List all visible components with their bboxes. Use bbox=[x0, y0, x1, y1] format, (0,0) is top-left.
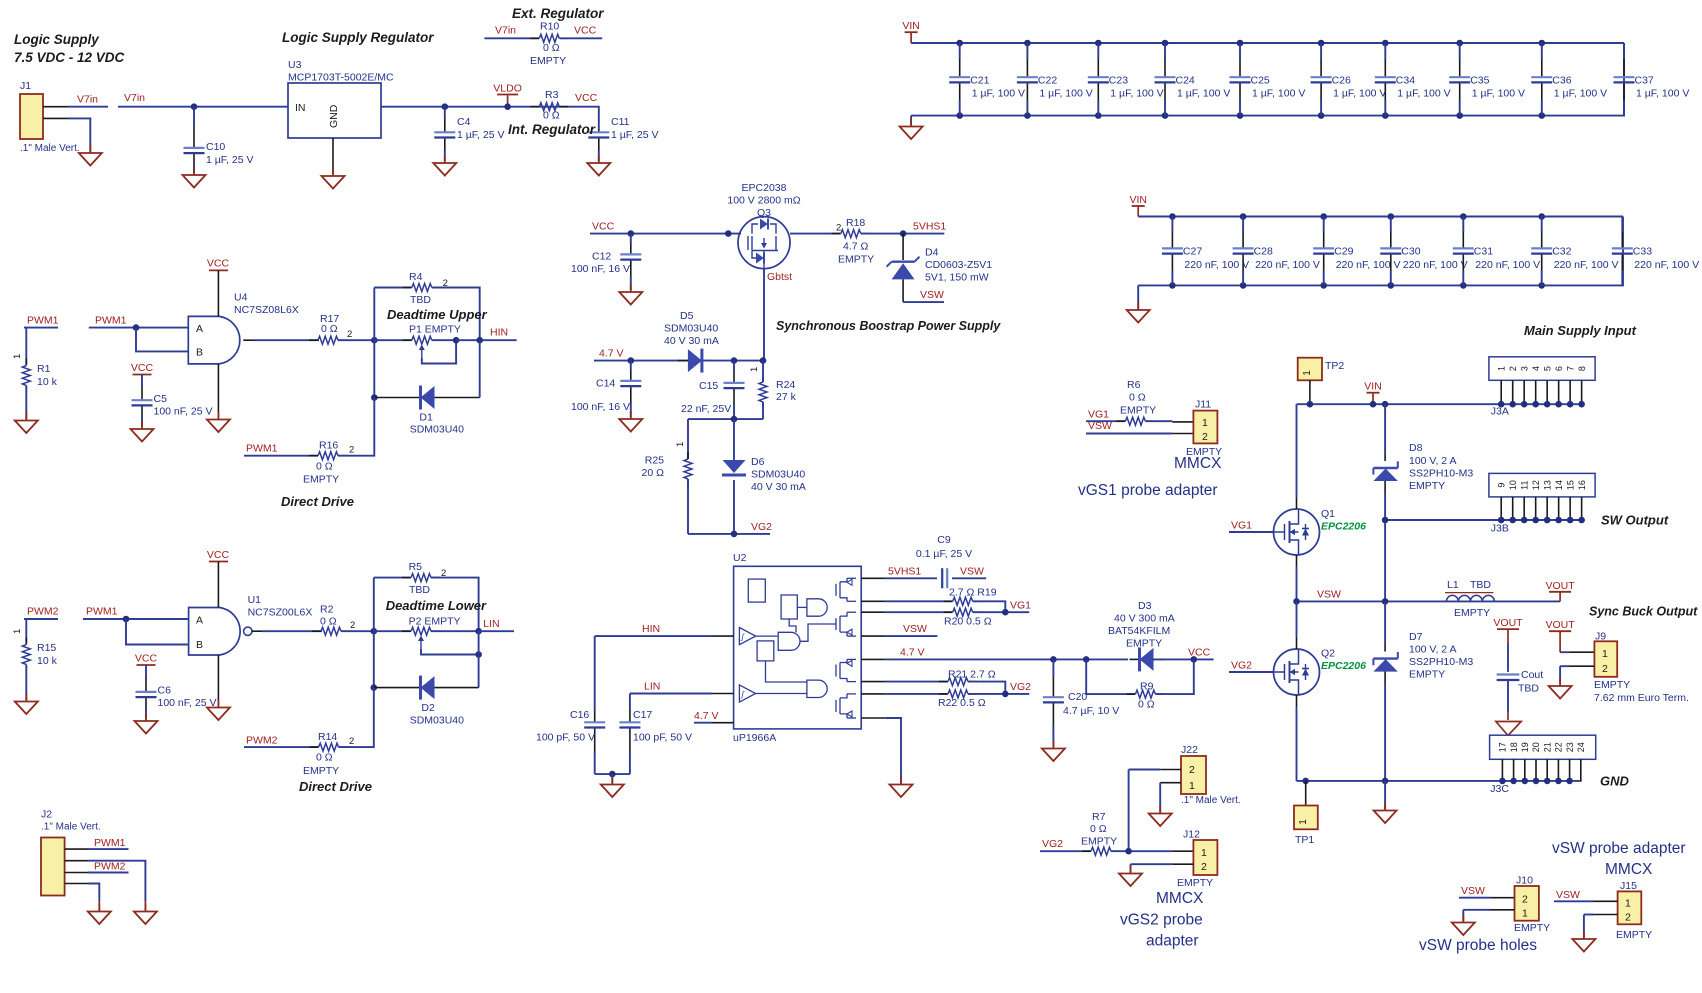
svg-text:VG1: VG1 bbox=[1010, 600, 1031, 612]
svg-text:1 µF, 100 V: 1 µF, 100 V bbox=[1252, 88, 1305, 100]
junction C14 tap bbox=[628, 357, 635, 364]
svg-text:VIN: VIN bbox=[1129, 194, 1147, 206]
svg-text:VCC: VCC bbox=[574, 25, 597, 37]
capacitor C17 bbox=[629, 694, 631, 701]
svg-text:EMPTY: EMPTY bbox=[303, 765, 339, 777]
wire D7 gnd stub bbox=[1384, 781, 1386, 809]
wire P2 wiper loop bbox=[421, 649, 479, 655]
svg-text:HIN: HIN bbox=[642, 623, 660, 635]
ground at C10 bbox=[193, 167, 195, 175]
svg-text:J3C: J3C bbox=[1490, 783, 1509, 795]
svg-text:2: 2 bbox=[1201, 861, 1207, 873]
U4 GND pin bbox=[217, 364, 219, 418]
junction C4 tap bbox=[442, 103, 449, 110]
svg-text:220 nF, 100 V: 220 nF, 100 V bbox=[1554, 259, 1619, 271]
svg-text:5: 5 bbox=[1542, 366, 1552, 371]
svg-text:5VHS1: 5VHS1 bbox=[888, 566, 921, 578]
svg-text:D8: D8 bbox=[1409, 442, 1423, 454]
junction D3 left bbox=[1083, 656, 1090, 663]
capacitor C36 bbox=[1539, 40, 1546, 47]
svg-text:VCC: VCC bbox=[1188, 647, 1211, 659]
svg-text:J3B: J3B bbox=[1491, 523, 1509, 535]
svg-text:C16: C16 bbox=[570, 709, 589, 721]
svg-text:C15: C15 bbox=[699, 380, 718, 392]
svg-text:10 k: 10 k bbox=[37, 655, 58, 667]
junction J22 branch bbox=[1125, 848, 1132, 855]
svg-text:0 Ω: 0 Ω bbox=[1138, 699, 1155, 711]
resistor R22 bbox=[939, 693, 948, 695]
wire VG2 to R7 bbox=[1040, 850, 1090, 852]
ground at J12 bbox=[1130, 866, 1132, 874]
junction VG1 bbox=[973, 611, 1029, 613]
svg-text:VG2: VG2 bbox=[751, 521, 772, 533]
svg-text:Direct Drive: Direct Drive bbox=[281, 494, 354, 509]
svg-text:2: 2 bbox=[836, 223, 841, 234]
svg-text:VSW: VSW bbox=[1088, 420, 1112, 432]
svg-text:TBD: TBD bbox=[410, 294, 431, 306]
svg-text:R20 0.5 Ω: R20 0.5 Ω bbox=[944, 616, 992, 628]
svg-text:27 k: 27 k bbox=[776, 391, 797, 403]
svg-text:0 Ω: 0 Ω bbox=[316, 461, 333, 473]
svg-text:1: 1 bbox=[1625, 898, 1631, 910]
ground at U3 bbox=[332, 168, 334, 176]
U2 internal wiring bbox=[756, 619, 836, 694]
J3A pin 1 bbox=[1500, 380, 1502, 404]
svg-text:100 pF, 50 V: 100 pF, 50 V bbox=[536, 732, 595, 744]
svg-text:1: 1 bbox=[1602, 648, 1608, 660]
svg-text:U4: U4 bbox=[234, 292, 248, 304]
svg-text:2: 2 bbox=[349, 736, 354, 747]
svg-text:TBD: TBD bbox=[1470, 579, 1491, 591]
svg-text:J11: J11 bbox=[1195, 399, 1211, 411]
wire V7in to R10 bbox=[484, 37, 539, 39]
svg-text:SW Output: SW Output bbox=[1601, 513, 1669, 528]
svg-text:1 µF, 100 V: 1 µF, 100 V bbox=[1039, 88, 1092, 100]
U2 pin gate hi bbox=[861, 600, 886, 602]
svg-text:EMPTY: EMPTY bbox=[838, 254, 874, 266]
ground at Cout bbox=[1496, 722, 1521, 736]
junction C15 top bbox=[731, 357, 738, 364]
wire SW rail bbox=[1385, 519, 1582, 521]
capacitor C34 bbox=[1382, 40, 1389, 47]
svg-text:R7: R7 bbox=[1092, 811, 1106, 823]
svg-text:23: 23 bbox=[1565, 742, 1575, 752]
wire 4.7V row bbox=[594, 360, 688, 362]
junction PWM1 branch at U1 bbox=[123, 616, 130, 623]
svg-text:4.7 V: 4.7 V bbox=[694, 710, 719, 722]
J22 pin 2 wire bbox=[1160, 769, 1181, 771]
U2 internal schmitt buffer 2 bbox=[739, 685, 755, 702]
svg-text:D5: D5 bbox=[680, 310, 694, 322]
wire 5VHS1 to C9 bbox=[886, 577, 937, 579]
svg-text:vGS2 probe: vGS2 probe bbox=[1120, 912, 1203, 929]
svg-text:MMCX: MMCX bbox=[1605, 861, 1653, 878]
diode D8 bbox=[1373, 467, 1397, 469]
ground at C4 bbox=[444, 155, 446, 163]
junction D1 left bbox=[371, 394, 378, 401]
capacitor C4 bbox=[444, 118, 446, 132]
ground at C11 bbox=[598, 155, 600, 163]
wire VCC from R10 bbox=[560, 37, 602, 39]
svg-text:EMPTY: EMPTY bbox=[530, 55, 566, 67]
wire left branch vertical bbox=[373, 288, 375, 398]
svg-text:.1" Male Vert.: .1" Male Vert. bbox=[1181, 795, 1241, 806]
svg-text:VOUT: VOUT bbox=[1546, 619, 1576, 631]
svg-text:20 Ω: 20 Ω bbox=[642, 467, 665, 479]
ground at C16 C17 bbox=[611, 777, 613, 785]
svg-text:220 nF, 100 V: 220 nF, 100 V bbox=[1403, 259, 1468, 271]
svg-text:22 nF, 25V: 22 nF, 25V bbox=[681, 403, 731, 415]
capacitor C11 bbox=[598, 129, 600, 132]
svg-text:HIN: HIN bbox=[490, 327, 508, 339]
svg-text:C10: C10 bbox=[206, 141, 225, 153]
svg-text:C27: C27 bbox=[1183, 246, 1202, 258]
U2 internal block 2 bbox=[781, 595, 797, 619]
wire to D2 bbox=[374, 687, 420, 689]
svg-text:SS2PH10-M3: SS2PH10-M3 bbox=[1409, 656, 1473, 668]
capacitor C15 bbox=[733, 371, 735, 383]
wire C9 to VSW bbox=[952, 577, 986, 579]
svg-text:R5: R5 bbox=[409, 561, 423, 573]
svg-text:BAT54KFILM: BAT54KFILM bbox=[1108, 625, 1170, 637]
svg-text:P2 EMPTY: P2 EMPTY bbox=[409, 615, 461, 627]
svg-text:adapter: adapter bbox=[1146, 933, 1199, 950]
capacitor C25 bbox=[1237, 40, 1244, 47]
svg-text:EMPTY: EMPTY bbox=[1126, 638, 1162, 650]
U2 pin sense lo bbox=[861, 693, 886, 695]
wire gnd rail bottom bank1 bbox=[911, 43, 1624, 116]
capacitor C31 bbox=[1460, 213, 1467, 220]
svg-text:A: A bbox=[196, 614, 203, 626]
svg-text:D3: D3 bbox=[1138, 600, 1152, 612]
J3B pin 10 bbox=[1512, 497, 1514, 520]
U2 pin LIN bbox=[712, 693, 734, 695]
svg-text:Main Supply Input: Main Supply Input bbox=[1524, 323, 1637, 338]
svg-text:EMPTY: EMPTY bbox=[303, 474, 339, 486]
svg-text:R18: R18 bbox=[846, 217, 865, 229]
U2 pin HIN bbox=[712, 635, 734, 637]
svg-text:0 Ω: 0 Ω bbox=[543, 110, 560, 122]
J3A pin 4 bbox=[1535, 380, 1537, 404]
svg-text:D1: D1 bbox=[419, 412, 433, 424]
svg-text:Q2: Q2 bbox=[1321, 648, 1335, 660]
wire PWM1 to R16 bbox=[244, 455, 318, 457]
ground at C5 bbox=[141, 421, 143, 429]
svg-text:2: 2 bbox=[350, 620, 355, 631]
U4 VCC pin bbox=[217, 270, 219, 316]
svg-text:U3: U3 bbox=[288, 59, 302, 71]
svg-text:1 µF, 100 V: 1 µF, 100 V bbox=[1177, 88, 1230, 100]
svg-text:EPC2038: EPC2038 bbox=[742, 182, 787, 194]
wire PWM1 to U1 input A bbox=[83, 618, 189, 620]
power port VIN main bbox=[1367, 392, 1380, 394]
diode D1 bbox=[421, 386, 435, 409]
svg-text:C23: C23 bbox=[1109, 75, 1128, 87]
power port VOUT at Cout bbox=[1497, 628, 1519, 630]
svg-text:1 µF, 100 V: 1 µF, 100 V bbox=[1110, 88, 1163, 100]
wire PWM1 to U4 input A bbox=[89, 327, 189, 329]
svg-text:J12: J12 bbox=[1183, 829, 1200, 841]
svg-text:PWM2: PWM2 bbox=[94, 860, 126, 872]
svg-text:PWM1: PWM1 bbox=[94, 837, 126, 849]
svg-text:A: A bbox=[196, 323, 203, 335]
junction Q3 gate tap bbox=[725, 230, 732, 237]
svg-text:1: 1 bbox=[749, 367, 760, 372]
svg-text:12: 12 bbox=[1531, 480, 1541, 490]
J3B pin 9 bbox=[1500, 497, 1502, 520]
ground at C20 bbox=[1052, 741, 1054, 749]
svg-text:PWM1: PWM1 bbox=[27, 315, 59, 327]
wire to D4 bbox=[902, 234, 904, 260]
J3B pin 11 bbox=[1523, 497, 1525, 520]
svg-text:uP1966A: uP1966A bbox=[733, 732, 776, 744]
svg-text:15: 15 bbox=[1565, 480, 1575, 490]
wire to R15 bbox=[25, 619, 27, 643]
svg-text:C20: C20 bbox=[1068, 691, 1087, 703]
junction deadtime upper left bbox=[371, 337, 378, 344]
junction VLDO bbox=[504, 103, 511, 110]
svg-text:CD0603-Z5V1: CD0603-Z5V1 bbox=[925, 259, 992, 271]
svg-text:VSW: VSW bbox=[903, 623, 927, 635]
J3B pin 14 bbox=[1558, 497, 1560, 520]
zener diode D4 bbox=[892, 261, 915, 263]
svg-text:TBD: TBD bbox=[1518, 683, 1539, 695]
wire Q1 source bbox=[1296, 555, 1298, 567]
J3C pin 21 bbox=[1546, 759, 1548, 781]
svg-text:P1 EMPTY: P1 EMPTY bbox=[409, 324, 461, 336]
wire HIN net bbox=[595, 635, 712, 637]
svg-text:V7in: V7in bbox=[495, 25, 516, 37]
svg-text:1: 1 bbox=[1496, 366, 1506, 371]
capacitor C32 bbox=[1538, 213, 1545, 220]
svg-text:PWM2: PWM2 bbox=[246, 735, 278, 747]
svg-text:SS2PH10-M3: SS2PH10-M3 bbox=[1409, 468, 1473, 480]
svg-text:R15: R15 bbox=[37, 642, 56, 654]
J22 pin 1 wire to ground bbox=[1160, 782, 1181, 784]
capacitor C22 bbox=[1024, 40, 1031, 47]
svg-text:SDM03U40: SDM03U40 bbox=[664, 323, 718, 335]
svg-text:1: 1 bbox=[1522, 908, 1528, 920]
junction P2 right bbox=[475, 628, 482, 635]
ground at J9 bbox=[1559, 678, 1561, 686]
U2 pin sense hi bbox=[861, 611, 886, 613]
U2 output fet 1 bbox=[836, 578, 856, 601]
svg-text:11: 11 bbox=[1519, 480, 1529, 489]
svg-text:vGS1 probe adapter: vGS1 probe adapter bbox=[1078, 482, 1218, 499]
svg-text:C24: C24 bbox=[1176, 75, 1195, 87]
svg-text:10: 10 bbox=[1508, 480, 1518, 490]
ground at U2 bbox=[900, 777, 902, 785]
resistor R9 loop bbox=[1086, 659, 1135, 694]
wire Q2 drain bbox=[1296, 637, 1298, 649]
capacitor C12 bbox=[630, 243, 632, 254]
svg-text:Deadtime Lower: Deadtime Lower bbox=[386, 598, 487, 613]
svg-text:1 µF, 100 V: 1 µF, 100 V bbox=[1554, 88, 1607, 100]
svg-text:18: 18 bbox=[1509, 742, 1519, 752]
svg-text:EMPTY: EMPTY bbox=[1081, 836, 1117, 848]
svg-text:EMPTY: EMPTY bbox=[1454, 607, 1490, 619]
svg-text:C22: C22 bbox=[1038, 75, 1057, 87]
J3C pin 22 bbox=[1557, 759, 1559, 781]
J3C pin 24 bbox=[1580, 759, 1582, 781]
wire R17 to junction bbox=[338, 339, 374, 341]
svg-text:1 µF, 100 V: 1 µF, 100 V bbox=[1472, 88, 1525, 100]
svg-text:.1" Male Vert.: .1" Male Vert. bbox=[20, 143, 80, 154]
svg-text:0 Ω: 0 Ω bbox=[1129, 392, 1146, 404]
U2 internal AND gate B bbox=[778, 632, 800, 650]
J3B pin 13 bbox=[1546, 497, 1548, 520]
svg-text:24: 24 bbox=[1576, 742, 1586, 752]
svg-text:VG2: VG2 bbox=[1231, 660, 1252, 672]
power port VOUT at J9 bbox=[1549, 630, 1571, 632]
resistor R17 bbox=[309, 339, 318, 341]
junction VG2 bbox=[968, 693, 1029, 695]
junction HIN bbox=[476, 337, 483, 344]
svg-text:EMPTY: EMPTY bbox=[1514, 922, 1550, 934]
wire Q1 drain bbox=[1296, 404, 1298, 497]
J3A pin 6 bbox=[1558, 380, 1560, 404]
svg-text:VG1: VG1 bbox=[1231, 520, 1252, 532]
J3B pin 15 bbox=[1569, 497, 1571, 520]
wire D7 branch bbox=[1384, 601, 1386, 645]
U2 internal schmitt buffer 1 bbox=[739, 628, 755, 645]
svg-text:C9: C9 bbox=[937, 534, 951, 546]
diode D6 bbox=[723, 460, 746, 473]
svg-text:220 nF, 100 V: 220 nF, 100 V bbox=[1634, 259, 1699, 271]
svg-text:C14: C14 bbox=[596, 378, 615, 390]
ground at bank2 bbox=[1137, 302, 1139, 310]
junction P1 right bbox=[453, 337, 460, 344]
power port VCC at U4 bbox=[209, 269, 228, 271]
J2 pin 2 to ground bbox=[65, 860, 88, 862]
wire VSW row main bbox=[1297, 600, 1561, 602]
wire to R1 bbox=[25, 328, 27, 364]
svg-text:EMPTY: EMPTY bbox=[1409, 669, 1445, 681]
svg-text:VIN: VIN bbox=[1364, 381, 1382, 393]
svg-text:C37: C37 bbox=[1635, 75, 1654, 87]
svg-text:Logic Supply Regulator: Logic Supply Regulator bbox=[282, 30, 434, 45]
U2 output fet 2 bbox=[836, 612, 856, 636]
svg-text:4.7 Ω: 4.7 Ω bbox=[843, 241, 869, 253]
resistor R2 bbox=[312, 630, 321, 632]
ground at U4 bbox=[217, 412, 219, 420]
svg-text:EMPTY: EMPTY bbox=[1594, 679, 1630, 691]
svg-text:B: B bbox=[196, 639, 203, 651]
wire to U4 input B bbox=[136, 328, 188, 352]
svg-text:GND: GND bbox=[328, 104, 340, 128]
junction D7 gnd bbox=[1382, 778, 1389, 785]
J3C pin 19 bbox=[1524, 759, 1526, 781]
J9 pin 2 to ground bbox=[1570, 665, 1595, 667]
wire R2 to junction bbox=[341, 630, 374, 632]
junction TP1 bbox=[1302, 778, 1309, 785]
svg-text:C30: C30 bbox=[1401, 246, 1420, 258]
svg-text:40 V 30 mA: 40 V 30 mA bbox=[664, 335, 719, 347]
svg-text:MMCX: MMCX bbox=[1156, 890, 1204, 907]
svg-text:100 pF, 50 V: 100 pF, 50 V bbox=[633, 732, 692, 744]
ground at C12 bbox=[630, 284, 632, 292]
junction R24 top bbox=[760, 357, 767, 364]
svg-text:10 k: 10 k bbox=[37, 376, 58, 388]
svg-text:IN: IN bbox=[295, 102, 306, 114]
svg-text:40 V 300 mA: 40 V 300 mA bbox=[1114, 613, 1175, 625]
svg-text:SDM03U40: SDM03U40 bbox=[751, 469, 805, 481]
svg-text:C17: C17 bbox=[633, 709, 652, 721]
resistor R18 bbox=[832, 233, 841, 235]
svg-text:1: 1 bbox=[1202, 417, 1208, 429]
ground at J10 bbox=[1462, 915, 1464, 923]
svg-text:7: 7 bbox=[1565, 366, 1575, 371]
svg-text:J2: J2 bbox=[41, 809, 52, 821]
wire VSW to J11 bbox=[1086, 433, 1172, 435]
junction C12 tap bbox=[628, 230, 635, 237]
U2 output fet 4 bbox=[836, 694, 856, 718]
J3A pin 7 bbox=[1569, 380, 1571, 404]
svg-text:SDM03U40: SDM03U40 bbox=[410, 424, 464, 436]
svg-text:16: 16 bbox=[1577, 480, 1587, 490]
svg-text:VSW: VSW bbox=[960, 566, 984, 578]
wire D3 to VCC bbox=[1152, 658, 1214, 660]
U2 pin 4.7V left bbox=[712, 722, 734, 724]
svg-text:R2: R2 bbox=[320, 604, 334, 616]
capacitor C24 bbox=[1162, 40, 1169, 47]
wire VCC to Q3 bbox=[590, 233, 741, 235]
svg-text:Gbtst: Gbtst bbox=[767, 271, 792, 283]
U2 internal AND gate C bbox=[807, 680, 827, 697]
capacitor C10 bbox=[193, 125, 195, 148]
wire V7in to U3 bbox=[118, 106, 288, 108]
svg-text:VOUT: VOUT bbox=[1493, 617, 1523, 629]
svg-text:2.7 Ω R19: 2.7 Ω R19 bbox=[949, 587, 997, 599]
capacitor C20 bbox=[1052, 676, 1054, 697]
svg-text:6: 6 bbox=[1554, 366, 1564, 371]
svg-text:C33: C33 bbox=[1633, 246, 1652, 258]
J3A pin 3 bbox=[1523, 380, 1525, 404]
svg-text:3: 3 bbox=[1519, 366, 1529, 371]
svg-text:VCC: VCC bbox=[207, 258, 230, 270]
svg-text:PWM2: PWM2 bbox=[27, 606, 59, 618]
J3C pin 18 bbox=[1513, 759, 1515, 781]
wire VLDO from U3 bbox=[381, 107, 599, 126]
svg-text:VOUT: VOUT bbox=[1546, 580, 1576, 592]
svg-text:C12: C12 bbox=[592, 251, 611, 263]
junction VSW D8 bbox=[1382, 598, 1389, 605]
svg-text:4.7 V: 4.7 V bbox=[599, 348, 624, 360]
svg-text:100 nF, 25 V: 100 nF, 25 V bbox=[154, 406, 213, 418]
resistor R1 bbox=[25, 359, 27, 366]
capacitor C28 bbox=[1240, 213, 1247, 220]
wire R18 to 5VHS1 bbox=[861, 233, 944, 235]
J3A pin 5 bbox=[1546, 380, 1548, 404]
svg-text:0 Ω: 0 Ω bbox=[316, 752, 333, 764]
svg-text:C21: C21 bbox=[970, 75, 989, 87]
svg-text:J1: J1 bbox=[20, 80, 31, 92]
svg-text:C29: C29 bbox=[1334, 246, 1353, 258]
svg-text:C34: C34 bbox=[1396, 75, 1415, 87]
svg-text:220 nF, 100 V: 220 nF, 100 V bbox=[1475, 259, 1540, 271]
svg-text:C4: C4 bbox=[457, 116, 471, 128]
svg-text:U2: U2 bbox=[733, 552, 747, 564]
svg-text:0.1 µF, 25 V: 0.1 µF, 25 V bbox=[916, 548, 972, 560]
svg-text:100 nF, 16 V: 100 nF, 16 V bbox=[571, 401, 630, 413]
diode D2 bbox=[421, 676, 435, 699]
svg-text:VIN: VIN bbox=[902, 20, 920, 32]
junction VSW Q1 bbox=[1293, 598, 1300, 605]
J3C pin 20 bbox=[1535, 759, 1537, 781]
svg-text:4.7 µF, 10 V: 4.7 µF, 10 V bbox=[1063, 705, 1119, 717]
svg-text:NC7SZ00L6X: NC7SZ00L6X bbox=[248, 607, 313, 619]
capacitor C27 bbox=[1169, 213, 1176, 220]
